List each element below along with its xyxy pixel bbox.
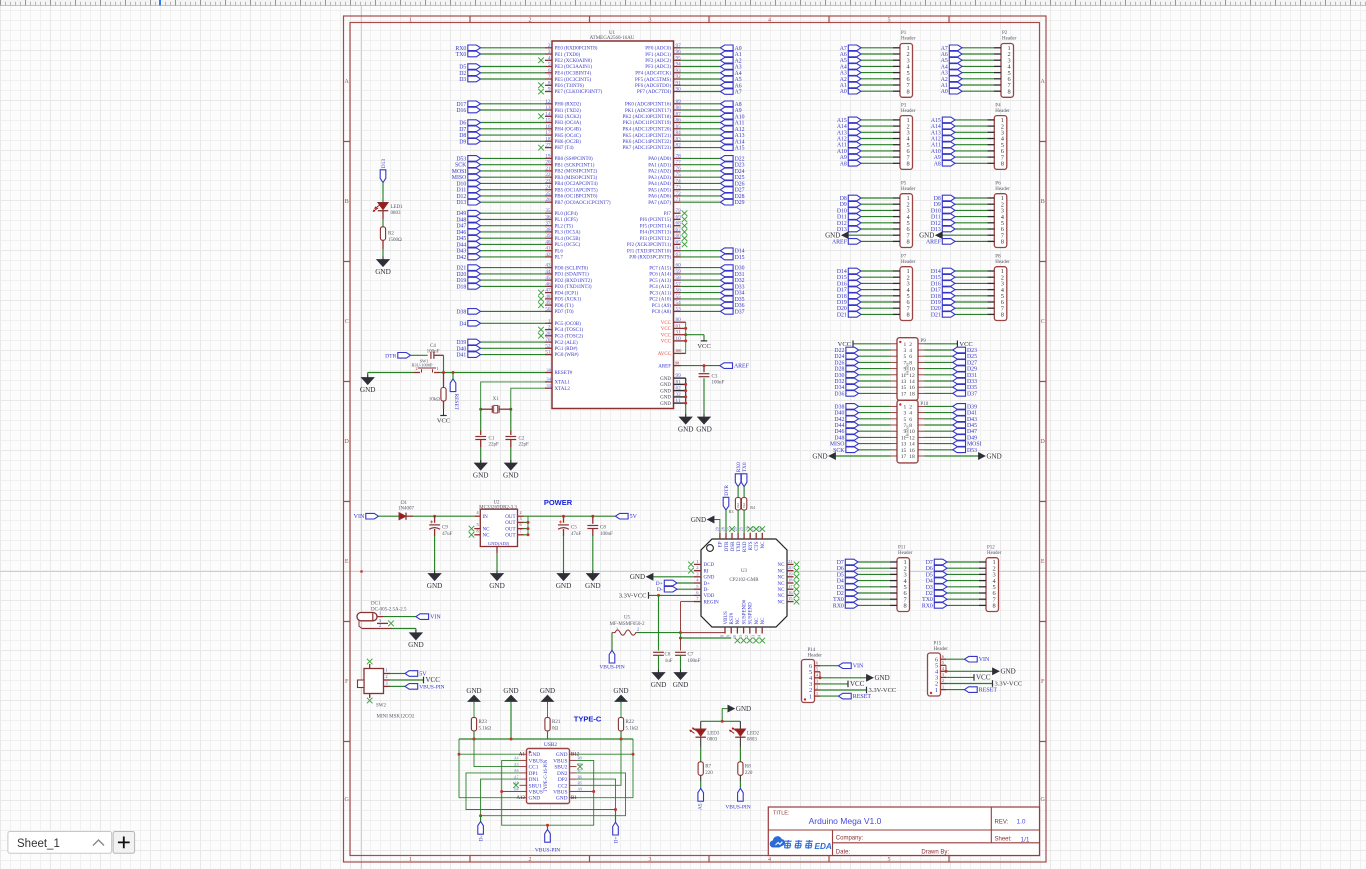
- svg-text:Header: Header: [901, 260, 916, 265]
- svg-text:A11: A11: [931, 143, 941, 149]
- svg-text:53: 53: [676, 306, 682, 312]
- svg-text:11: 11: [901, 373, 907, 379]
- svg-text:D1: D1: [401, 501, 408, 506]
- svg-text:D20: D20: [931, 306, 941, 312]
- svg-text:NC: NC: [778, 582, 786, 587]
- svg-text:D11: D11: [931, 215, 941, 221]
- svg-text:3: 3: [903, 411, 906, 417]
- svg-text:5V: 5V: [696, 804, 702, 811]
- svg-text:A0: A0: [941, 89, 948, 95]
- svg-text:6: 6: [909, 417, 912, 423]
- svg-text:14: 14: [545, 111, 551, 117]
- svg-text:D22: D22: [735, 156, 745, 162]
- svg-text:D5: D5: [926, 572, 933, 578]
- svg-text:2: 2: [909, 404, 912, 410]
- svg-text:C8: C8: [665, 653, 671, 658]
- svg-text:SBU1: SBU1: [529, 783, 542, 789]
- svg-text:9: 9: [903, 367, 906, 373]
- svg-text:GND: GND: [660, 396, 671, 401]
- svg-text:R2: R2: [388, 231, 394, 236]
- svg-text:SCK: SCK: [455, 163, 467, 169]
- svg-text:D2: D2: [926, 591, 933, 597]
- svg-text:PE5 (OC3CINT5): PE5 (OC3CINT5): [555, 78, 592, 83]
- svg-text:D+: D+: [704, 582, 711, 587]
- svg-text:SBU2: SBU2: [554, 765, 567, 771]
- svg-text:D53: D53: [456, 156, 466, 162]
- svg-text:AREF: AREF: [832, 239, 848, 245]
- svg-text:NC: NC: [761, 541, 766, 549]
- svg-text:TX0: TX0: [742, 462, 748, 472]
- svg-text:X1: X1: [493, 397, 500, 402]
- svg-text:5: 5: [942, 660, 944, 665]
- svg-text:D16: D16: [931, 281, 941, 287]
- svg-text:84: 84: [676, 130, 682, 136]
- svg-text:PC7 (A15): PC7 (A15): [649, 266, 671, 271]
- svg-text:A3: A3: [840, 71, 847, 77]
- svg-text:DTR: DTR: [725, 541, 730, 552]
- svg-text:SUSPEND: SUSPEND: [749, 602, 754, 625]
- svg-text:A5: A5: [941, 58, 948, 64]
- svg-text:GND: GND: [408, 641, 424, 649]
- svg-text:D28: D28: [735, 194, 745, 200]
- svg-text:Header: Header: [1002, 37, 1017, 42]
- svg-text:D10: D10: [456, 181, 466, 187]
- svg-text:D9: D9: [840, 202, 847, 208]
- svg-text:94: 94: [676, 62, 682, 68]
- svg-text:D42: D42: [834, 417, 844, 423]
- svg-text:D5: D5: [837, 572, 844, 578]
- svg-text:Header: Header: [995, 109, 1010, 114]
- svg-text:AREF: AREF: [658, 364, 671, 369]
- svg-text:DTR: DTR: [724, 485, 730, 496]
- svg-text:2: 2: [519, 510, 521, 515]
- svg-text:MISO: MISO: [830, 442, 845, 448]
- svg-text:91: 91: [676, 80, 682, 86]
- svg-text:4: 4: [942, 666, 944, 671]
- svg-text:GND: GND: [825, 232, 840, 240]
- svg-text:8: 8: [909, 423, 912, 429]
- svg-text:D3: D3: [926, 585, 933, 591]
- svg-text:SW2: SW2: [376, 703, 387, 708]
- svg-text:6: 6: [942, 654, 944, 659]
- svg-text:D44: D44: [456, 242, 466, 248]
- svg-text:ATMEGA2560-16AU: ATMEGA2560-16AU: [590, 36, 635, 41]
- svg-text:PK0 (ADC8PCINT16): PK0 (ADC8PCINT16): [625, 103, 671, 108]
- svg-text:CP2102-GMR: CP2102-GMR: [729, 578, 759, 583]
- svg-text:8: 8: [992, 603, 995, 610]
- svg-text:VBUS: VBUS: [553, 790, 567, 796]
- svg-text:R8: R8: [745, 764, 751, 769]
- svg-text:PF7 (ADC7TDI): PF7 (ADC7TDI): [637, 90, 671, 95]
- svg-text:A9: A9: [934, 155, 941, 161]
- svg-text:D14: D14: [837, 269, 847, 275]
- svg-text:GND: GND: [987, 452, 1002, 460]
- svg-text:1: 1: [942, 684, 944, 689]
- svg-text:A7: A7: [941, 46, 948, 52]
- svg-text:PE3 (OC3AAIN1): PE3 (OC3AAIN1): [555, 65, 593, 70]
- svg-text:PD3 (TXD1INT3): PD3 (TXD1INT3): [555, 285, 592, 290]
- svg-text:VIN: VIN: [979, 657, 990, 663]
- svg-text:67: 67: [676, 227, 682, 233]
- svg-text:0Ω: 0Ω: [736, 503, 740, 508]
- svg-text:D15: D15: [735, 255, 745, 261]
- svg-text:100nF: 100nF: [688, 659, 701, 664]
- svg-text:18: 18: [909, 454, 915, 460]
- svg-text:D3: D3: [837, 585, 844, 591]
- svg-text:38: 38: [545, 227, 551, 233]
- svg-text:NC: NC: [483, 527, 491, 532]
- svg-text:GND: GND: [660, 377, 671, 382]
- svg-text:Sheet_1: Sheet_1: [17, 838, 60, 850]
- svg-text:VCC: VCC: [426, 676, 441, 684]
- svg-text:PD6 (T1): PD6 (T1): [555, 304, 574, 309]
- svg-text:PL0 (ICP4): PL0 (ICP4): [555, 212, 579, 217]
- svg-text:TITLE:: TITLE:: [773, 810, 790, 816]
- svg-text:5.1kΩ: 5.1kΩ: [626, 726, 639, 731]
- svg-text:OUT: OUT: [505, 521, 515, 526]
- svg-text:A2: A2: [840, 77, 847, 83]
- svg-text:PD1 (SDAINT1): PD1 (SDAINT1): [555, 273, 590, 278]
- svg-text:54: 54: [676, 300, 682, 306]
- svg-text:5: 5: [888, 857, 891, 863]
- svg-text:TX0: TX0: [456, 52, 467, 58]
- svg-text:5: 5: [903, 354, 906, 360]
- svg-text:49: 49: [545, 300, 551, 306]
- svg-text:3.3V-VCC: 3.3V-VCC: [869, 687, 897, 694]
- svg-text:D13: D13: [381, 159, 387, 169]
- svg-text:D36: D36: [735, 303, 745, 309]
- svg-text:28: 28: [545, 331, 551, 337]
- svg-text:16: 16: [788, 590, 793, 595]
- svg-text:MOSI: MOSI: [452, 169, 467, 175]
- svg-text:A1: A1: [840, 83, 847, 89]
- svg-text:GND: GND: [660, 383, 671, 388]
- svg-text:PH3 (OC4A): PH3 (OC4A): [555, 121, 582, 126]
- svg-text:VBUS: VBUS: [529, 758, 543, 764]
- svg-text:PK2 (ADC10PCINT18): PK2 (ADC10PCINT18): [623, 115, 672, 120]
- svg-text:18: 18: [545, 136, 551, 142]
- svg-text:C4: C4: [430, 344, 436, 349]
- svg-text:14: 14: [909, 379, 915, 385]
- svg-text:D5: D5: [459, 65, 466, 71]
- svg-text:PC5 (A13): PC5 (A13): [649, 279, 671, 284]
- svg-text:B3U-1000P: B3U-1000P: [412, 362, 434, 367]
- svg-text:LED2: LED2: [747, 732, 760, 737]
- svg-text:A: A: [345, 79, 350, 85]
- svg-text:GND: GND: [704, 576, 715, 581]
- svg-text:D20: D20: [837, 306, 847, 312]
- svg-text:7: 7: [548, 74, 551, 80]
- svg-text:MF-MSMF050-2: MF-MSMF050-2: [609, 622, 645, 627]
- svg-text:D15: D15: [931, 275, 941, 281]
- svg-text:2: 2: [529, 857, 532, 863]
- svg-text:PL5 (OC5C): PL5 (OC5C): [555, 243, 581, 248]
- svg-text:PB6 (OC1BPCINT6): PB6 (OC1BPCINT6): [555, 195, 598, 200]
- svg-text:11: 11: [738, 635, 743, 639]
- svg-text:GND: GND: [556, 796, 568, 802]
- svg-text:C: C: [345, 319, 349, 325]
- svg-text:D18: D18: [931, 294, 941, 300]
- svg-text:16: 16: [909, 448, 915, 454]
- svg-text:9: 9: [726, 635, 731, 637]
- svg-text:45: 45: [545, 275, 551, 281]
- svg-text:D7: D7: [459, 127, 466, 133]
- svg-text:XTAL2: XTAL2: [555, 387, 571, 392]
- svg-text:1: 1: [903, 404, 906, 410]
- svg-text:VDD: VDD: [704, 594, 715, 599]
- svg-text:P11: P11: [898, 545, 906, 550]
- svg-text:A6: A6: [840, 52, 847, 58]
- svg-text:97: 97: [676, 43, 682, 49]
- svg-text:PC6 (A14): PC6 (A14): [649, 273, 671, 278]
- svg-text:1: 1: [935, 687, 938, 694]
- svg-text:88: 88: [676, 105, 682, 111]
- svg-text:10kΩ: 10kΩ: [429, 397, 441, 402]
- svg-text:D41: D41: [967, 411, 977, 417]
- svg-text:R3: R3: [729, 509, 734, 514]
- svg-text:GND: GND: [660, 389, 671, 394]
- svg-text:VCC: VCC: [661, 340, 672, 345]
- svg-text:D22: D22: [834, 348, 844, 354]
- svg-text:D-: D-: [657, 587, 663, 593]
- svg-text:PK3 (ADC11PCINT19): PK3 (ADC11PCINT19): [623, 121, 672, 126]
- svg-text:PB3 (MISOPCINT3): PB3 (MISOPCINT3): [555, 176, 598, 181]
- svg-text:16: 16: [909, 385, 915, 391]
- svg-text:PK7 (ADC15PCINT23): PK7 (ADC15PCINT23): [623, 146, 672, 151]
- svg-text:P5: P5: [901, 181, 907, 186]
- svg-text:PB2 (MOSIPCINT2): PB2 (MOSIPCINT2): [555, 170, 598, 175]
- svg-text:3: 3: [379, 618, 381, 623]
- svg-text:REV:: REV:: [995, 820, 1009, 826]
- svg-text:LED3: LED3: [707, 732, 720, 737]
- svg-text:A2: A2: [941, 77, 948, 83]
- svg-text:NC: NC: [778, 576, 786, 581]
- svg-text:40: 40: [545, 239, 551, 245]
- svg-text:PG1 (RD#): PG1 (RD#): [555, 347, 578, 352]
- svg-text:1: 1: [809, 693, 812, 700]
- svg-text:D10: D10: [837, 208, 847, 214]
- svg-text:C7: C7: [688, 653, 694, 658]
- svg-text:1: 1: [903, 342, 906, 348]
- svg-text:22: 22: [545, 172, 551, 178]
- svg-text:16: 16: [545, 124, 551, 130]
- svg-text:A4: A4: [735, 71, 742, 77]
- svg-text:NC: NC: [778, 594, 786, 599]
- svg-text:78: 78: [676, 153, 682, 159]
- svg-text:D18: D18: [837, 294, 847, 300]
- svg-text:99: 99: [676, 373, 682, 379]
- svg-text:96: 96: [676, 49, 682, 55]
- svg-text:RST#: RST#: [730, 612, 735, 624]
- svg-text:20: 20: [788, 565, 793, 570]
- svg-text:30: 30: [546, 367, 551, 372]
- svg-text:15: 15: [901, 385, 907, 391]
- svg-text:43: 43: [545, 263, 551, 269]
- svg-text:8: 8: [906, 239, 909, 246]
- svg-text:37: 37: [545, 221, 551, 227]
- svg-text:PE0 (RXD0PCINT8): PE0 (RXD0PCINT8): [555, 47, 598, 52]
- svg-text:A15: A15: [837, 118, 847, 124]
- svg-text:A7: A7: [735, 90, 742, 96]
- svg-text:17: 17: [788, 584, 793, 589]
- svg-text:A15: A15: [735, 146, 745, 152]
- svg-text:1500Ω: 1500Ω: [388, 238, 402, 243]
- svg-text:6: 6: [909, 354, 912, 360]
- svg-text:22pF: 22pF: [489, 443, 500, 448]
- svg-text:56: 56: [676, 288, 682, 294]
- svg-text:64: 64: [676, 246, 682, 252]
- svg-text:PC3 (A11): PC3 (A11): [649, 291, 671, 296]
- svg-text:EDA: EDA: [815, 842, 832, 851]
- svg-text:PH1 (TXD2): PH1 (TXD2): [555, 109, 582, 114]
- svg-text:10: 10: [909, 367, 915, 373]
- svg-text:PG2 (ALE): PG2 (ALE): [555, 341, 579, 346]
- svg-text:GND: GND: [660, 402, 671, 407]
- svg-text:1.0: 1.0: [1017, 819, 1026, 826]
- svg-text:3.3V-VCC: 3.3V-VCC: [995, 681, 1023, 688]
- svg-text:MISO: MISO: [452, 175, 467, 181]
- svg-text:D27: D27: [967, 360, 977, 366]
- svg-text:D4: D4: [837, 579, 844, 585]
- svg-text:D-: D-: [704, 588, 710, 593]
- svg-text:A5: A5: [840, 58, 847, 64]
- svg-text:CC2: CC2: [558, 783, 568, 789]
- svg-text:57: 57: [676, 281, 682, 287]
- svg-text:13: 13: [901, 442, 907, 448]
- svg-text:4: 4: [816, 673, 818, 678]
- svg-text:DC-005-2.5A-2.5: DC-005-2.5A-2.5: [371, 607, 407, 612]
- svg-text:PD2 (RXD1INT2): PD2 (RXD1INT2): [555, 279, 593, 284]
- svg-text:IN: IN: [483, 515, 489, 520]
- svg-text:EP: EP: [719, 541, 724, 547]
- svg-text:GND: GND: [427, 582, 443, 590]
- svg-text:4: 4: [909, 411, 912, 417]
- svg-text:A8: A8: [735, 102, 742, 108]
- svg-text:RX0: RX0: [922, 603, 933, 609]
- svg-text:D11: D11: [837, 215, 847, 221]
- svg-text:D43: D43: [456, 249, 466, 255]
- svg-text:D24: D24: [834, 354, 844, 360]
- svg-text:D39: D39: [456, 340, 466, 346]
- svg-text:VBUS: VBUS: [724, 611, 729, 625]
- svg-text:D44: D44: [834, 423, 844, 429]
- svg-text:PL4 (OC5B): PL4 (OC5B): [555, 237, 581, 242]
- svg-text:PB5 (OC1APCINT5): PB5 (OC1APCINT5): [555, 188, 599, 193]
- svg-text:RESET: RESET: [853, 694, 872, 700]
- svg-text:D29: D29: [967, 367, 977, 373]
- svg-text:95: 95: [676, 55, 682, 61]
- svg-text:5: 5: [548, 62, 551, 68]
- svg-text:79: 79: [676, 208, 682, 214]
- svg-text:D2: D2: [837, 591, 844, 597]
- svg-text:PG0 (WR#): PG0 (WR#): [555, 353, 579, 358]
- svg-text:0803: 0803: [391, 211, 402, 216]
- svg-text:D21: D21: [837, 312, 847, 318]
- svg-text:GND: GND: [585, 582, 601, 590]
- svg-text:93: 93: [676, 68, 682, 74]
- svg-text:D10: D10: [931, 208, 941, 214]
- svg-text:58: 58: [676, 275, 682, 281]
- svg-text:DC1: DC1: [371, 601, 381, 606]
- svg-text:D49: D49: [456, 211, 466, 217]
- svg-text:P8: P8: [995, 254, 1001, 259]
- svg-text:D29: D29: [735, 200, 745, 206]
- svg-text:D3: D3: [459, 77, 466, 83]
- svg-text:D47: D47: [456, 224, 466, 230]
- svg-text:15: 15: [788, 596, 793, 601]
- svg-text:C3: C3: [712, 374, 718, 379]
- svg-text:5: 5: [476, 522, 478, 527]
- svg-text:PA6 (AD6): PA6 (AD6): [648, 195, 671, 200]
- svg-text:73: 73: [676, 185, 682, 191]
- svg-text:PB0 (SS#PCINT0): PB0 (SS#PCINT0): [555, 157, 594, 162]
- svg-text:D38: D38: [456, 309, 466, 315]
- svg-text:PJ1 (TXD3PCINT10): PJ1 (TXD3PCINT10): [627, 249, 671, 254]
- svg-text:D11: D11: [457, 188, 467, 194]
- svg-text:NC: NC: [778, 569, 786, 574]
- svg-text:D14: D14: [735, 249, 745, 255]
- svg-text:2: 2: [529, 18, 532, 24]
- svg-text:76: 76: [676, 166, 682, 172]
- svg-text:D46: D46: [456, 230, 466, 236]
- svg-text:2: 2: [942, 678, 944, 683]
- svg-text:P15: P15: [934, 642, 942, 647]
- svg-text:7: 7: [903, 360, 906, 366]
- svg-text:5: 5: [888, 18, 891, 24]
- svg-text:8: 8: [1001, 239, 1004, 246]
- svg-text:D4: D4: [459, 321, 466, 327]
- svg-text:21: 21: [788, 559, 793, 564]
- svg-text:19: 19: [788, 571, 793, 576]
- svg-text:3: 3: [816, 679, 818, 684]
- svg-text:Date:: Date:: [836, 849, 851, 855]
- svg-text:D33: D33: [735, 284, 745, 290]
- svg-text:0803: 0803: [707, 738, 718, 743]
- svg-text:12: 12: [909, 435, 915, 441]
- svg-text:A13: A13: [931, 130, 941, 136]
- svg-text:DTR: DTR: [385, 353, 396, 359]
- svg-text:POWER: POWER: [544, 498, 573, 507]
- svg-text:Company:: Company:: [836, 835, 864, 841]
- svg-text:D35: D35: [735, 297, 745, 303]
- svg-text:A5: A5: [735, 77, 742, 83]
- svg-text:PF5 (ADC5TMS): PF5 (ADC5TMS): [635, 78, 671, 83]
- svg-text:PB7 (OC0AOC1CPCINT7): PB7 (OC0AOC1CPCINT7): [555, 201, 611, 206]
- svg-text:A1: A1: [941, 83, 948, 89]
- svg-text:PJ7: PJ7: [664, 212, 672, 217]
- svg-text:8: 8: [903, 603, 906, 610]
- svg-text:4: 4: [909, 348, 912, 354]
- svg-text:D15: D15: [837, 275, 847, 281]
- svg-text:RESET: RESET: [979, 688, 998, 694]
- svg-text:A3: A3: [941, 71, 948, 77]
- svg-text:82: 82: [676, 143, 682, 149]
- svg-text:8: 8: [906, 312, 909, 319]
- svg-text:AREF: AREF: [926, 239, 942, 245]
- svg-text:55: 55: [676, 294, 682, 300]
- svg-text:RESET: RESET: [453, 394, 459, 411]
- svg-text:VIN: VIN: [354, 514, 365, 520]
- svg-text:PE2 (XCK0AIN0): PE2 (XCK0AIN0): [555, 59, 593, 64]
- svg-text:A1: A1: [519, 752, 526, 757]
- svg-text:D43: D43: [967, 417, 977, 423]
- svg-text:PL3 (OC5A): PL3 (OC5A): [555, 231, 581, 236]
- svg-text:220: 220: [745, 771, 753, 776]
- svg-text:GND: GND: [360, 386, 376, 394]
- svg-text:PA0 (AD0): PA0 (AD0): [648, 157, 671, 162]
- svg-text:PA2 (AD2): PA2 (AD2): [648, 170, 671, 175]
- svg-text:50: 50: [545, 306, 551, 312]
